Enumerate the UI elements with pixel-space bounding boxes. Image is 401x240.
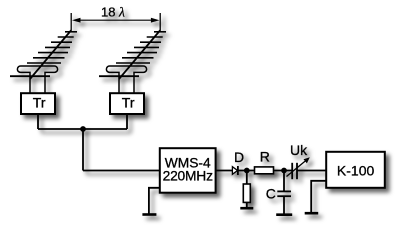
svg-text:Tr: Tr xyxy=(122,95,135,111)
svg-text:R: R xyxy=(260,148,270,164)
svg-text:Tr: Tr xyxy=(33,95,46,111)
svg-text:C: C xyxy=(266,185,276,201)
svg-text:220MHz: 220MHz xyxy=(163,169,213,184)
svg-text:D: D xyxy=(234,149,244,165)
svg-text:K-100: K-100 xyxy=(337,162,375,178)
svg-text:18λ: 18λ xyxy=(101,5,125,20)
svg-text:Uk: Uk xyxy=(290,142,308,158)
